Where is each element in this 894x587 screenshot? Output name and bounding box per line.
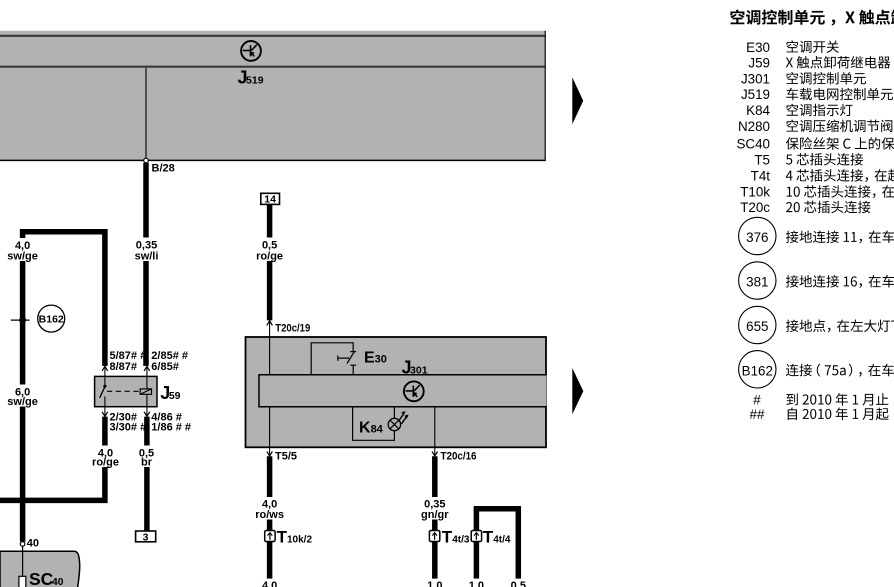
svg-text:J59: J59 xyxy=(748,55,770,70)
terminal circle at J519 pin B/28 xyxy=(144,158,149,163)
connector arrow T20c/16 xyxy=(434,447,436,456)
J519 internal bus separator line xyxy=(0,66,546,68)
svg-text:##: ## xyxy=(750,407,765,422)
svg-text:1/86 # #: 1/86 # # xyxy=(151,421,191,433)
ground designation box 3 xyxy=(136,531,156,542)
svg-text:T4t: T4t xyxy=(751,169,771,184)
svg-text:381: 381 xyxy=(746,275,768,290)
svg-text:ro/ge: ro/ge xyxy=(92,457,119,469)
svg-text:B162: B162 xyxy=(742,363,773,378)
svg-text:T10k: T10k xyxy=(740,185,770,200)
J301 internal wire to T20c/16 xyxy=(434,407,436,448)
connector T10k/2 xyxy=(265,531,275,542)
connector arrow T5/5 xyxy=(269,447,271,456)
legend ground connection 381 xyxy=(739,262,776,299)
svg-text:376: 376 xyxy=(746,230,768,245)
connection B162 circle xyxy=(38,305,65,332)
relay J59 connection arrows bottom xyxy=(104,407,106,417)
svg-text:T5/5: T5/5 xyxy=(275,450,297,462)
svg-text:sw/ge: sw/ge xyxy=(7,251,38,263)
svg-text:0,5: 0,5 xyxy=(511,580,526,587)
svg-text:E30: E30 xyxy=(746,40,770,55)
J59 relay coil xyxy=(140,389,151,394)
bottom wire label 1,0 xyxy=(465,579,487,587)
svg-text:N280: N280 xyxy=(738,119,770,134)
svg-text:K84: K84 xyxy=(746,103,770,118)
svg-text:br: br xyxy=(141,457,153,469)
indicator lamp K84 xyxy=(353,407,395,441)
continuation arrow middle xyxy=(572,368,583,414)
J59 switch contact xyxy=(104,376,106,384)
svg-text:T20c/19: T20c/19 xyxy=(275,322,310,334)
legend title xyxy=(730,10,894,26)
wire B/28 to relay J59 pin 85 (0,35 sw/li) xyxy=(143,163,149,366)
svg-text:sw/li: sw/li xyxy=(135,251,159,263)
svg-text:14: 14 xyxy=(264,194,276,206)
svg-text:3: 3 xyxy=(143,531,149,543)
continuation arrow top xyxy=(572,77,583,124)
svg-text:6/85#: 6/85# xyxy=(151,361,179,373)
wire 0,5 br from relay pin 86 to ground 3 xyxy=(144,417,150,531)
terminal circle 40 on SC40 xyxy=(20,542,25,547)
dash-panel insert symbol (K) in J301 xyxy=(404,381,424,401)
wire 0,5 ro/ge from 14 to J301 pin T20c/19 xyxy=(267,204,273,320)
relay J59 (X-contact relief relay) xyxy=(95,376,157,406)
relay J59 connection arrows top xyxy=(102,366,108,371)
svg-text:655: 655 xyxy=(746,319,768,334)
wire label 4,0 sw/ge xyxy=(7,238,38,261)
svg-text:#: # xyxy=(753,393,761,408)
connector T4t/3 xyxy=(429,531,439,542)
svg-text:T5: T5 xyxy=(754,152,770,167)
J59 dashed actuation line xyxy=(107,390,140,392)
wire 4,0 ro/ws below J301 xyxy=(267,456,273,587)
connector arrow T20c/19 xyxy=(267,321,273,326)
svg-text:SC40: SC40 xyxy=(737,137,771,152)
svg-text:B162: B162 xyxy=(39,313,64,325)
dash-panel insert symbol (K) in J519 xyxy=(241,41,261,61)
svg-text:gn/gr: gn/gr xyxy=(421,509,449,521)
wire into fuse SC40 xyxy=(22,546,24,576)
terminal 14 box xyxy=(261,193,280,204)
svg-text:3/30# #: 3/30# # xyxy=(110,421,147,433)
svg-text:J59: J59 xyxy=(160,383,180,403)
connector T4t/4 xyxy=(471,531,481,542)
wire 4,0 ro/ge from relay pin 30 to left edge xyxy=(0,417,105,501)
svg-text:1,0: 1,0 xyxy=(427,580,442,587)
fuse panel SC40 xyxy=(0,551,80,587)
J301 internal wire from T20c/19 xyxy=(269,337,271,447)
wire 0,35 gn/gr below J301 xyxy=(432,456,438,587)
svg-text:ro/ws: ro/ws xyxy=(255,509,284,521)
svg-text:J519: J519 xyxy=(741,87,770,102)
control unit box J519 (top band) xyxy=(0,31,546,161)
legend ground connection 655 xyxy=(739,306,776,343)
svg-text:ro/ge: ro/ge xyxy=(256,251,283,263)
fuse symbol in SC40 xyxy=(19,576,26,587)
wire 4,0 sw/ge from SC40 up and over to relay J59 pin 87 xyxy=(23,232,105,542)
svg-text:1,0: 1,0 xyxy=(469,580,484,587)
svg-text:T4t/3: T4t/3 xyxy=(442,528,470,547)
bottom wire label 0,5 xyxy=(507,579,529,587)
K84 light arrows xyxy=(398,414,406,424)
legend ground connection 376 xyxy=(739,217,776,254)
svg-text:sw/ge: sw/ge xyxy=(7,396,38,408)
wire loop from T4t/4 to 0,5 wire xyxy=(476,509,518,587)
J301 internal bus band xyxy=(259,375,547,407)
switch E30 (A/C switch) xyxy=(311,343,353,375)
svg-text:T20c: T20c xyxy=(740,200,770,215)
svg-text:T20c/16: T20c/16 xyxy=(441,450,477,462)
wire label 0,35 sw/li xyxy=(131,238,162,262)
svg-text:J301: J301 xyxy=(741,71,770,86)
svg-text:4,0: 4,0 xyxy=(262,580,277,587)
svg-text:T4t/4: T4t/4 xyxy=(483,528,511,547)
bottom wire label 4,0 xyxy=(258,579,281,587)
svg-text:T10k/2: T10k/2 xyxy=(277,528,313,547)
A/C control unit J301 xyxy=(246,337,547,447)
junction tick for connection B162 xyxy=(11,319,30,321)
legend ground connection B162 xyxy=(739,351,776,388)
svg-text:40: 40 xyxy=(27,537,39,549)
J519 internal wire to terminal B/28 xyxy=(145,68,147,159)
svg-text:8/87#: 8/87# xyxy=(110,361,138,373)
svg-text:B/28: B/28 xyxy=(152,163,175,175)
wire below T4t/4 xyxy=(474,541,480,587)
bottom wire label 1,0 xyxy=(424,579,446,587)
wire label 6,0 sw/ge xyxy=(7,385,38,407)
